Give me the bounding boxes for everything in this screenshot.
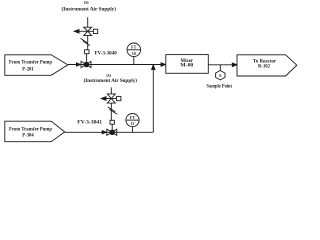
svg-text:11: 11	[131, 121, 135, 126]
svg-text:Sample Point: Sample Point	[207, 84, 233, 89]
svg-text:FV-3-3040: FV-3-3040	[95, 51, 118, 56]
svg-text:FT: FT	[131, 45, 137, 50]
svg-text:From Transfer Pump: From Transfer Pump	[9, 60, 52, 66]
svg-text:(Instrument Air Supply): (Instrument Air Supply)	[84, 77, 138, 84]
svg-text:From Transfer Pump: From Transfer Pump	[9, 126, 52, 132]
svg-text:S: S	[219, 73, 222, 78]
svg-text:M-00: M-00	[180, 64, 194, 69]
svg-text:P-201: P-201	[22, 66, 34, 72]
svg-text:P-304: P-304	[22, 133, 34, 139]
svg-text:(Instrument Air Supply): (Instrument Air Supply)	[62, 6, 117, 13]
svg-text:10: 10	[132, 51, 136, 56]
svg-text:R-102: R-102	[258, 64, 270, 69]
svg-text:FT: FT	[130, 115, 136, 120]
svg-text:FV-3-3041: FV-3-3041	[77, 120, 102, 125]
svg-text:IAS: IAS	[84, 0, 89, 5]
